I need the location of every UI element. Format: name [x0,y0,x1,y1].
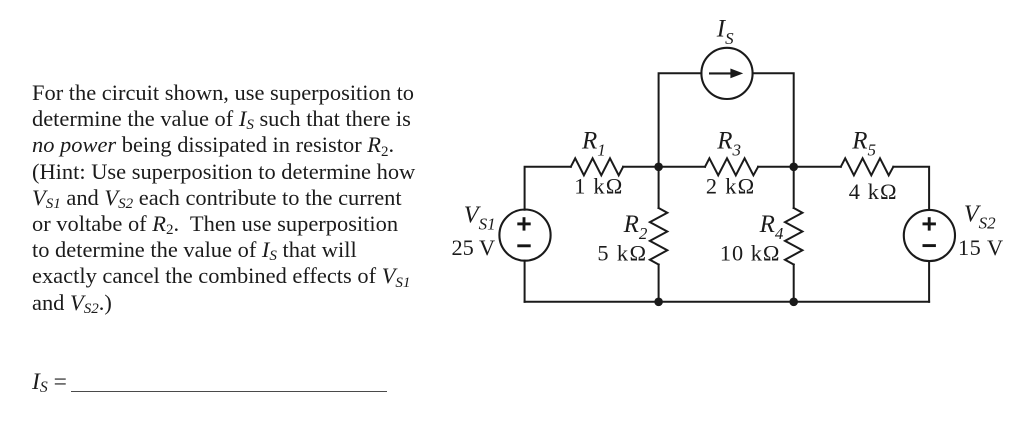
V_S2 plus sign [923,217,936,245]
wire: node B down to R4 [793,167,795,208]
resistor R1 zigzag [571,158,623,175]
node C dot (bottom left) [654,298,663,307]
svg-text:25 V: 25 V [452,235,496,260]
svg-text:15 V: 15 V [958,235,1004,260]
node B dot [789,163,798,172]
svg-text:IS: IS [716,16,734,48]
wire: R2 to bottom rail [658,265,660,302]
wire: V_S2 bottom lead [928,261,930,302]
wire: V_S1 bottom lead [524,261,526,302]
svg-text:R5: R5 [851,127,876,159]
answer underline [71,391,387,393]
svg-text:10 kΩ: 10 kΩ [720,241,781,266]
svg-text:VS1: VS1 [464,202,496,234]
V_S1 plus sign [517,217,530,246]
wire: R3 to node B [758,166,794,168]
wire: R5 to right corner down to V_S2 [893,167,929,210]
wire: R4 to bottom rail [793,265,795,302]
svg-text:1 kΩ: 1 kΩ [574,174,623,199]
svg-text:R1: R1 [581,127,606,159]
problem statement text [32,82,414,104]
svg-text:R4: R4 [759,211,784,243]
svg-text:R3: R3 [716,127,741,159]
node D dot (bottom right) [789,298,798,307]
resistor R5 zigzag [841,158,894,175]
answer blank Is = [32,371,67,395]
wire: top rail right segment [753,73,794,167]
node A dot [654,163,663,172]
current source I_S circle [701,48,752,99]
resistor R4 zigzag (vertical) [785,208,802,265]
svg-text:4 kΩ: 4 kΩ [849,179,898,204]
wire: R1 to node A [623,166,659,168]
wire: middle rail V_S1 corner to R1 [525,167,571,210]
resistor R3 zigzag [705,158,758,175]
svg-text:5 kΩ: 5 kΩ [597,240,647,265]
wire: node B to R5 [794,166,841,168]
voltage source V_S1 circle [499,210,550,261]
resistor R2 zigzag (vertical) [650,208,667,265]
wire: bottom rail [525,301,930,303]
wire: node A down to R2 [658,167,660,208]
V_S2 minus sign [923,244,936,247]
voltage source V_S2 circle [904,210,955,261]
svg-text:VS2: VS2 [964,200,996,232]
wire: top rail left segment [659,73,702,167]
svg-text:2 kΩ: 2 kΩ [706,174,756,199]
V_S1 minus sign [517,244,530,247]
svg-text:R2: R2 [623,211,648,243]
wire: node A to R3 [659,166,705,168]
current source arrow [709,69,743,79]
